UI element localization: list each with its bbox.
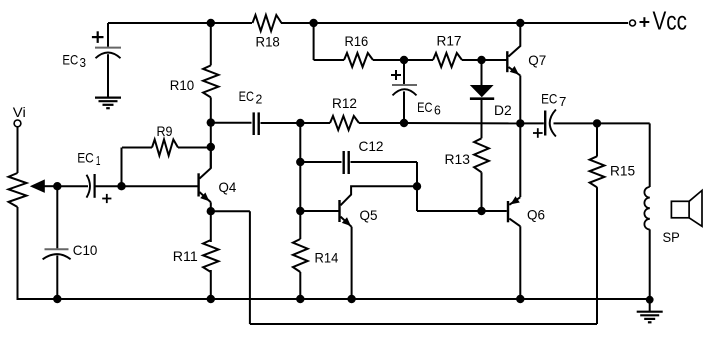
svg-text:R9: R9 (157, 123, 173, 139)
svg-text:EC: EC (417, 99, 432, 115)
svg-text:Vcc: Vcc (653, 5, 688, 35)
svg-text:6: 6 (434, 102, 441, 117)
svg-text:D2: D2 (494, 102, 512, 118)
svg-text:Q5: Q5 (360, 207, 378, 223)
svg-text:Q6: Q6 (527, 207, 545, 223)
svg-text:R11: R11 (173, 248, 198, 264)
svg-text:R15: R15 (610, 163, 635, 179)
svg-text:R17: R17 (437, 33, 462, 49)
svg-text:SP: SP (663, 229, 680, 245)
svg-text:EC: EC (239, 88, 254, 104)
svg-text:R10: R10 (170, 77, 195, 93)
svg-text:R14: R14 (315, 250, 339, 266)
svg-text:R13: R13 (445, 151, 471, 167)
svg-text:2: 2 (256, 92, 263, 107)
svg-text:Vi: Vi (13, 104, 26, 120)
svg-text:R12: R12 (332, 95, 357, 111)
svg-text:EC: EC (541, 91, 557, 107)
svg-text:R16: R16 (345, 33, 369, 49)
svg-text:R18: R18 (256, 34, 280, 50)
svg-text:C12: C12 (359, 138, 384, 154)
svg-text:Q4: Q4 (219, 179, 237, 195)
svg-text:EC: EC (77, 150, 94, 166)
svg-text:Q7: Q7 (528, 52, 546, 68)
svg-text:3: 3 (80, 55, 87, 70)
svg-text:7: 7 (559, 94, 566, 109)
svg-text:1: 1 (96, 153, 101, 168)
svg-text:EC: EC (62, 51, 78, 67)
svg-text:C10: C10 (73, 242, 98, 258)
